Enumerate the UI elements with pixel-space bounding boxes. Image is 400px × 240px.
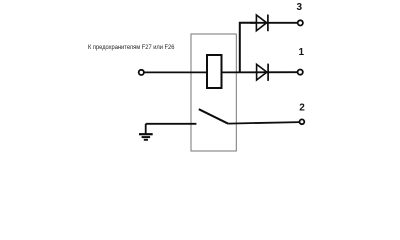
svg-text:2: 2 — [299, 102, 305, 113]
terminal 2 — [300, 119, 305, 124]
diode to terminal 3 — [256, 15, 268, 32]
wire: ground to switch contact — [146, 123, 197, 125]
wire: vertical branch to upper diode — [240, 23, 257, 73]
terminal 1 — [298, 70, 303, 75]
wire: switch to terminal 2 — [228, 122, 299, 124]
diode to terminal 1 — [257, 64, 269, 81]
svg-text:3: 3 — [297, 2, 303, 13]
left terminal — [139, 70, 144, 75]
wire: left terminal to coil — [144, 71, 207, 73]
ground — [139, 124, 153, 140]
svg-text:1: 1 — [299, 47, 305, 58]
relay contact switch — [199, 109, 228, 124]
wire: coil to terminal 1 through diode — [222, 71, 298, 73]
relay coil K — [207, 55, 222, 88]
wire: upper diode row to terminal 3 — [250, 22, 298, 24]
svg-text:К предохранителям F27 или F26: К предохранителям F27 или F26 — [88, 44, 175, 51]
relay outline box — [191, 34, 236, 151]
terminal 3 — [298, 20, 303, 25]
